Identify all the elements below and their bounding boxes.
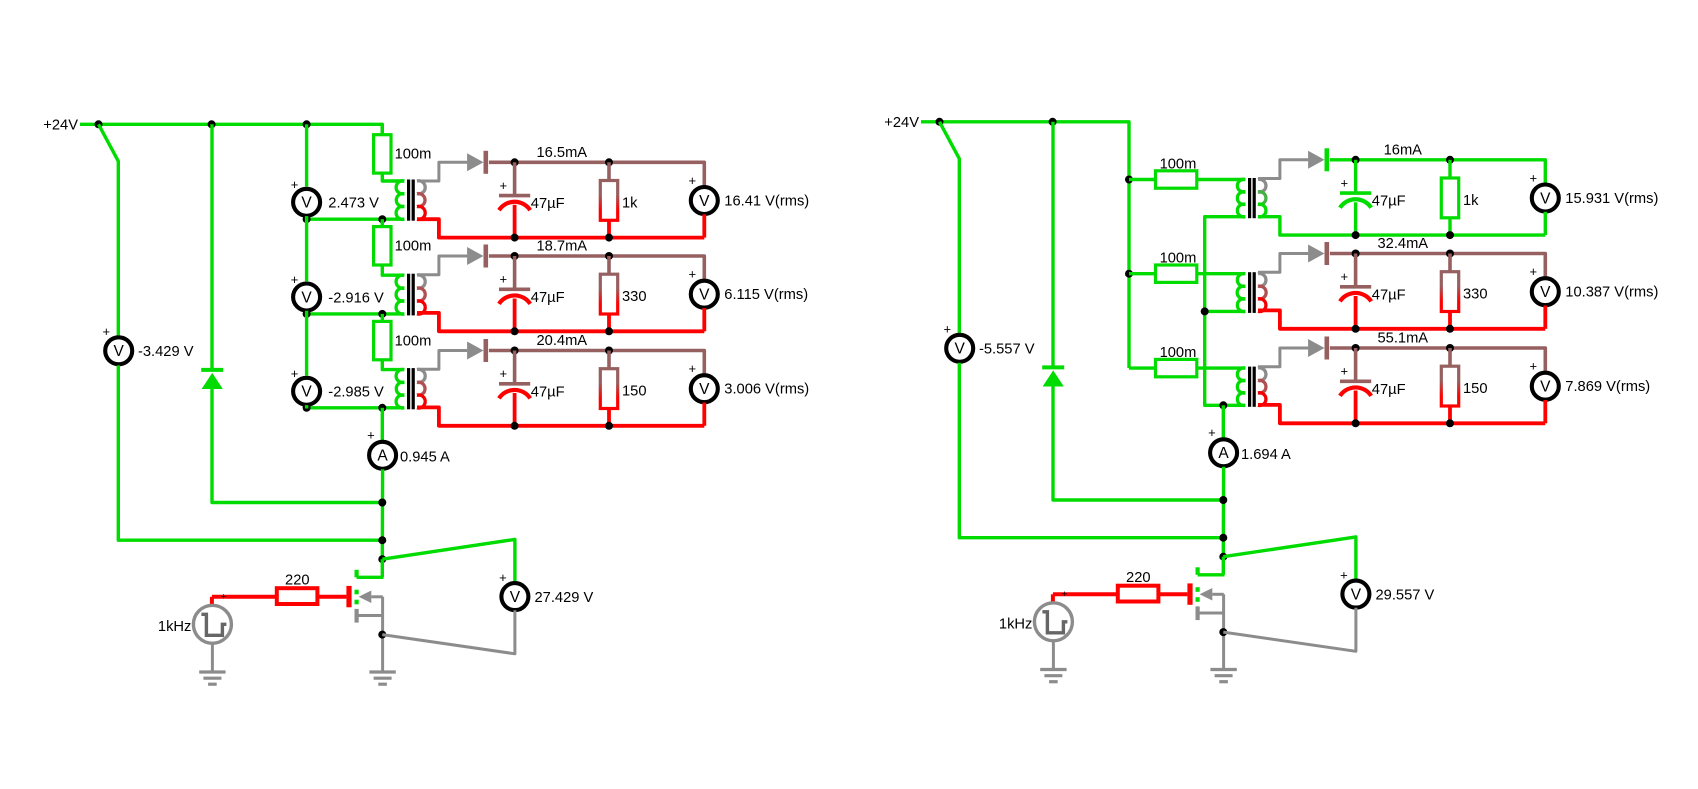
svg-text:+: + bbox=[1208, 425, 1216, 440]
svg-text:-3.429 V: -3.429 V bbox=[138, 344, 194, 360]
svg-text:18.7mA: 18.7mA bbox=[536, 239, 587, 255]
svg-text:1.694 A: 1.694 A bbox=[1241, 447, 1291, 463]
svg-text:2.473 V: 2.473 V bbox=[328, 196, 379, 212]
svg-text:+: + bbox=[499, 570, 507, 585]
svg-text:+: + bbox=[1340, 568, 1348, 583]
svg-text:+: + bbox=[1341, 176, 1349, 191]
svg-text:150: 150 bbox=[622, 384, 647, 400]
svg-text:V: V bbox=[699, 381, 710, 398]
svg-text:+: + bbox=[1530, 359, 1538, 374]
svg-text:+: + bbox=[291, 272, 299, 287]
svg-text:29.557 V: 29.557 V bbox=[1376, 588, 1435, 604]
svg-text:V: V bbox=[301, 289, 312, 306]
svg-text:+: + bbox=[103, 324, 111, 339]
svg-text:220: 220 bbox=[1126, 570, 1151, 586]
svg-text:V: V bbox=[1540, 379, 1551, 396]
svg-text:220: 220 bbox=[285, 572, 310, 588]
svg-text:100m: 100m bbox=[1160, 251, 1197, 267]
svg-text:V: V bbox=[510, 589, 521, 606]
svg-text:V: V bbox=[699, 193, 710, 210]
svg-text:330: 330 bbox=[622, 289, 647, 305]
svg-text:16.41 V(rms): 16.41 V(rms) bbox=[724, 194, 809, 210]
svg-text:47µF: 47µF bbox=[531, 196, 565, 212]
svg-text:V: V bbox=[1540, 190, 1551, 207]
svg-text:330: 330 bbox=[1463, 287, 1488, 303]
svg-text:15.931 V(rms): 15.931 V(rms) bbox=[1565, 191, 1658, 207]
svg-text:V: V bbox=[1351, 586, 1362, 603]
svg-text:32.4mA: 32.4mA bbox=[1377, 236, 1428, 252]
svg-text:16mA: 16mA bbox=[1384, 142, 1423, 158]
svg-text:+: + bbox=[221, 591, 227, 602]
svg-text:55.1mA: 55.1mA bbox=[1377, 331, 1428, 347]
svg-text:V: V bbox=[955, 341, 966, 358]
svg-text:1k: 1k bbox=[622, 196, 638, 212]
svg-text:+: + bbox=[1530, 264, 1538, 279]
svg-text:100m: 100m bbox=[395, 239, 432, 255]
svg-text:100m: 100m bbox=[1160, 345, 1197, 361]
svg-text:1kHz: 1kHz bbox=[999, 616, 1032, 632]
svg-text:47µF: 47µF bbox=[531, 384, 565, 400]
svg-text:+: + bbox=[1062, 589, 1068, 600]
svg-text:0.945 A: 0.945 A bbox=[400, 449, 450, 465]
svg-text:47µF: 47µF bbox=[531, 290, 565, 306]
svg-text:1kHz: 1kHz bbox=[158, 619, 191, 635]
svg-text:+24V: +24V bbox=[884, 115, 919, 131]
svg-text:47µF: 47µF bbox=[1372, 287, 1406, 303]
svg-text:+: + bbox=[1341, 364, 1349, 379]
svg-text:+: + bbox=[944, 321, 952, 336]
svg-text:+: + bbox=[1530, 170, 1538, 185]
svg-text:100m: 100m bbox=[1160, 156, 1197, 172]
svg-text:100m: 100m bbox=[395, 147, 432, 163]
svg-text:+: + bbox=[500, 178, 508, 193]
svg-text:V: V bbox=[301, 384, 312, 401]
svg-text:7.869 V(rms): 7.869 V(rms) bbox=[1565, 379, 1650, 395]
svg-text:V: V bbox=[301, 195, 312, 212]
svg-text:+: + bbox=[689, 267, 697, 282]
svg-text:-2.985 V: -2.985 V bbox=[328, 385, 384, 401]
svg-text:A: A bbox=[377, 448, 388, 465]
svg-text:-5.557 V: -5.557 V bbox=[979, 342, 1035, 358]
svg-text:+: + bbox=[500, 366, 508, 381]
svg-text:47µF: 47µF bbox=[1372, 194, 1406, 210]
svg-text:1k: 1k bbox=[1463, 193, 1479, 209]
svg-text:100m: 100m bbox=[395, 333, 432, 349]
svg-text:+: + bbox=[689, 173, 697, 188]
svg-text:47µF: 47µF bbox=[1372, 382, 1406, 398]
svg-text:+: + bbox=[500, 272, 508, 287]
svg-text:20.4mA: 20.4mA bbox=[536, 333, 587, 349]
svg-text:V: V bbox=[114, 343, 125, 360]
svg-text:+: + bbox=[1341, 269, 1349, 284]
svg-text:+24V: +24V bbox=[43, 118, 78, 134]
svg-text:+: + bbox=[291, 177, 299, 192]
svg-text:27.429 V: 27.429 V bbox=[535, 590, 594, 606]
svg-text:10.387 V(rms): 10.387 V(rms) bbox=[1565, 285, 1658, 301]
svg-text:+: + bbox=[689, 361, 697, 376]
svg-text:+: + bbox=[367, 428, 375, 443]
svg-text:V: V bbox=[699, 287, 710, 304]
svg-text:150: 150 bbox=[1463, 381, 1488, 397]
svg-text:V: V bbox=[1540, 284, 1551, 301]
svg-text:6.115 V(rms): 6.115 V(rms) bbox=[724, 287, 808, 303]
svg-text:16.5mA: 16.5mA bbox=[536, 145, 587, 161]
svg-text:3.006 V(rms): 3.006 V(rms) bbox=[724, 382, 809, 398]
svg-text:-2.916 V: -2.916 V bbox=[328, 290, 384, 306]
svg-text:A: A bbox=[1218, 445, 1229, 462]
svg-text:+: + bbox=[291, 366, 299, 381]
